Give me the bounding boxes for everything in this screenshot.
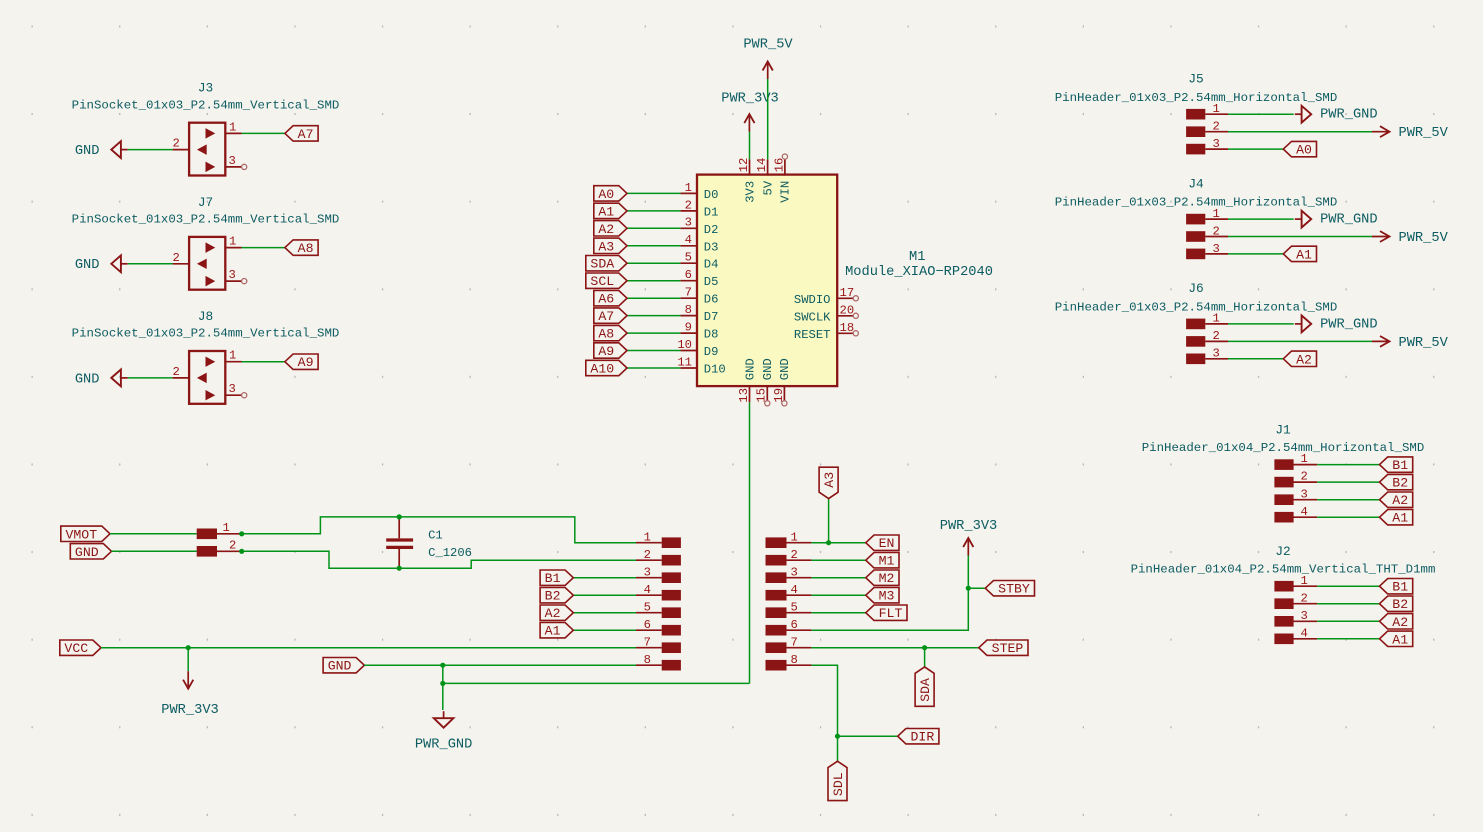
svg-text:3: 3 [1213, 242, 1220, 256]
svg-text:3: 3 [229, 268, 236, 282]
M1 pin 2 (D1) [680, 198, 718, 219]
svg-text:A1: A1 [1392, 632, 1408, 647]
wire M1.9 [627, 332, 680, 334]
junction VMOT [239, 531, 244, 536]
svg-text:D7: D7 [704, 310, 719, 324]
svg-text:PWR_3V3: PWR_3V3 [161, 703, 219, 718]
J7 pin 3 (unconnected) [225, 268, 246, 284]
svg-text:1: 1 [1213, 102, 1220, 116]
svg-text:1: 1 [685, 181, 692, 195]
junction VCC [186, 645, 191, 650]
J4 pad 3 [1186, 242, 1228, 259]
svg-text:A8: A8 [598, 327, 614, 342]
svg-text:PWR_5V: PWR_5V [1399, 231, 1449, 246]
wire VMOT [110, 533, 197, 535]
J8 pin 3 (unconnected) [225, 382, 246, 398]
svg-text:J7: J7 [198, 195, 213, 210]
power symbol PWR_3V3 mid [940, 519, 998, 555]
svg-text:2: 2 [1213, 329, 1220, 343]
svg-text:A2: A2 [598, 222, 614, 237]
wire J4.2 [1228, 236, 1372, 238]
motor-driver pad 5 [636, 600, 681, 618]
junction SDA [922, 645, 927, 650]
wire J6.3 [1228, 358, 1283, 360]
svg-text:3: 3 [685, 216, 692, 230]
label B2 left [540, 588, 573, 604]
svg-text:VMOT: VMOT [65, 527, 97, 542]
svg-text:GND: GND [761, 358, 775, 380]
wire EN [811, 542, 865, 544]
label SDL vertical [828, 761, 847, 800]
svg-text:14: 14 [755, 158, 769, 173]
svg-text:7: 7 [791, 635, 798, 649]
label A9 [285, 354, 318, 370]
wire M1.8 [627, 315, 680, 317]
label B1 at J2 [1380, 579, 1413, 595]
M1 pin 7 (D6) [680, 286, 718, 307]
svg-text:C1: C1 [428, 529, 443, 543]
svg-text:A2: A2 [1392, 615, 1408, 630]
label A1 at J2 [1380, 631, 1413, 647]
wire M1 GND down [443, 402, 750, 683]
svg-text:3: 3 [1213, 347, 1220, 361]
wire pin7 STEP [811, 647, 978, 649]
J5 pad 3 [1186, 137, 1228, 155]
svg-text:3V3: 3V3 [743, 181, 757, 203]
svg-text:1: 1 [1301, 574, 1308, 588]
wire M2 [811, 577, 865, 579]
svg-text:2: 2 [229, 539, 236, 553]
svg-text:6: 6 [644, 618, 651, 632]
svg-text:PinHeader_01x03_P2.54mm_Horizo: PinHeader_01x03_P2.54mm_Horizontal_SMD [1055, 301, 1338, 315]
connector J8 body [189, 351, 225, 404]
M1 pin 13 (GND) [737, 358, 757, 402]
J8 pin 1 [225, 349, 241, 363]
M1 pin 19 (GND) [772, 358, 792, 406]
wire J1.3 [1317, 499, 1379, 501]
wire J4.3 [1228, 253, 1283, 255]
svg-text:B2: B2 [545, 589, 561, 604]
svg-text:J1: J1 [1275, 423, 1291, 438]
wire J4.1 [1228, 218, 1294, 220]
J7 pin 2 [173, 251, 190, 265]
J6 pad 1 [1186, 312, 1228, 330]
wire A1 left [573, 629, 636, 631]
wire M1.10 [627, 350, 680, 352]
svg-text:B1: B1 [1392, 580, 1408, 595]
svg-text:2: 2 [1213, 120, 1220, 134]
label VMOT [61, 526, 110, 542]
wire STBY stub [968, 587, 985, 589]
svg-text:B2: B2 [1392, 476, 1408, 491]
capacitor C1 [386, 517, 472, 568]
J5 pad 2 [1186, 120, 1228, 138]
svg-text:M1: M1 [909, 250, 925, 265]
svg-text:1: 1 [229, 349, 236, 363]
M1 pin 11 (D10) [677, 355, 725, 376]
svg-text:PinSocket_01x03_P2.54mm_Vertic: PinSocket_01x03_P2.54mm_Vertical_SMD [72, 327, 340, 341]
svg-text:GND: GND [328, 659, 352, 674]
power symbol PWR_GND bottom [415, 711, 473, 753]
connector J3 labels [72, 81, 340, 113]
wire B2 left [573, 594, 636, 596]
svg-text:4: 4 [1301, 505, 1308, 519]
power symbol GND at J8 [75, 370, 128, 388]
motor-driver pad 7 [636, 635, 681, 653]
label A10 [586, 360, 627, 376]
svg-text:1: 1 [1213, 207, 1220, 221]
wire J8.1 [242, 361, 285, 363]
svg-text:PinSocket_01x03_P2.54mm_Vertic: PinSocket_01x03_P2.54mm_Vertical_SMD [72, 213, 340, 227]
J1 pad 3 [1274, 487, 1317, 505]
driver-ctrl pad 1 [766, 530, 812, 548]
label A7 [594, 308, 627, 324]
svg-text:D10: D10 [704, 363, 726, 377]
svg-text:GND: GND [75, 545, 99, 560]
svg-text:PWR_3V3: PWR_3V3 [721, 91, 779, 106]
J1 pad 2 [1274, 470, 1317, 488]
svg-text:13: 13 [737, 388, 751, 403]
svg-text:D9: D9 [704, 345, 719, 359]
wire GND logic [364, 664, 636, 666]
wire VCC drop [187, 648, 189, 672]
svg-text:1: 1 [1213, 312, 1220, 326]
label SDA vertical [915, 667, 934, 706]
wire DIR stub [838, 735, 898, 737]
svg-text:A2: A2 [1392, 493, 1408, 508]
svg-text:20: 20 [840, 304, 855, 318]
wire M1.3 [627, 227, 680, 229]
svg-text:A6: A6 [598, 292, 614, 307]
driver-ctrl pad 6 [766, 618, 812, 636]
svg-text:SWDIO: SWDIO [794, 293, 831, 307]
svg-text:2: 2 [173, 137, 180, 151]
wire 3V3 riser mid [967, 556, 969, 589]
svg-text:GND: GND [75, 372, 100, 387]
svg-text:2: 2 [1213, 224, 1220, 238]
svg-text:8: 8 [791, 653, 798, 667]
svg-text:1: 1 [223, 521, 230, 535]
svg-text:5V: 5V [761, 180, 775, 195]
wire FLT [811, 612, 865, 614]
svg-text:VIN: VIN [779, 181, 793, 203]
svg-text:DIR: DIR [911, 730, 935, 745]
svg-text:18: 18 [840, 321, 855, 335]
junction GND motor [239, 549, 244, 554]
label A2 [594, 221, 627, 237]
svg-text:3: 3 [1301, 609, 1308, 623]
label STBY [985, 581, 1034, 597]
svg-text:A10: A10 [590, 362, 614, 377]
power symbol PWR_5V at J5 [1372, 126, 1449, 141]
svg-text:GND: GND [743, 358, 757, 380]
M1 pin 4 (D3) [680, 233, 718, 254]
svg-text:4: 4 [791, 583, 798, 597]
svg-text:D6: D6 [704, 293, 719, 307]
svg-text:D3: D3 [704, 240, 719, 254]
svg-text:A3: A3 [598, 239, 614, 254]
M1 pin 17 (SWDIO, unconnected) [794, 286, 858, 307]
motor-driver pad 6 [636, 618, 681, 636]
label A1 at J1 [1380, 510, 1413, 526]
wire B1 left [573, 577, 636, 579]
svg-text:J2: J2 [1275, 544, 1290, 559]
svg-text:2: 2 [685, 198, 692, 212]
svg-text:J6: J6 [1188, 281, 1203, 296]
junction GND rail [440, 681, 445, 686]
svg-text:PWR_GND: PWR_GND [1320, 108, 1378, 123]
wire M1.5 [627, 262, 680, 264]
label A2 [1283, 351, 1316, 367]
power symbol PWR_GND at J5 [1295, 106, 1378, 123]
svg-text:12: 12 [737, 158, 751, 173]
svg-text:D4: D4 [704, 258, 719, 272]
svg-text:3: 3 [644, 565, 651, 579]
svg-text:PinHeader_01x04_P2.54mm_Horizo: PinHeader_01x04_P2.54mm_Horizontal_SMD [1142, 441, 1425, 455]
label A7 [285, 126, 318, 142]
driver-ctrl pad 7 [766, 635, 812, 653]
svg-text:SCL: SCL [590, 274, 614, 289]
svg-text:9: 9 [685, 321, 692, 335]
svg-text:PinHeader_01x03_P2.54mm_Horizo: PinHeader_01x03_P2.54mm_Horizontal_SMD [1055, 91, 1338, 105]
wire GND to pin2 [242, 551, 636, 568]
connector J8 labels [72, 309, 340, 341]
label M2 [866, 570, 899, 586]
label B1 left [540, 570, 573, 586]
label FLT [866, 605, 907, 621]
wire J2.1 [1317, 585, 1379, 587]
M1 pin 18 (RESET, unconnected) [794, 321, 858, 342]
wire M3 [811, 594, 865, 596]
svg-text:M1: M1 [879, 554, 895, 569]
label A2 at J2 [1380, 614, 1413, 630]
wire J7.1 [242, 247, 285, 249]
wire J6.1 [1228, 323, 1294, 325]
svg-text:3: 3 [1213, 137, 1220, 151]
junction EN/A3 [826, 540, 831, 545]
svg-text:VCC: VCC [64, 641, 88, 656]
pad GND 2 [197, 539, 242, 557]
svg-text:A1: A1 [545, 624, 561, 639]
svg-text:PinSocket_01x03_P2.54mm_Vertic: PinSocket_01x03_P2.54mm_Vertical_SMD [72, 98, 340, 112]
svg-text:A9: A9 [598, 344, 614, 359]
svg-text:D0: D0 [704, 188, 719, 202]
svg-text:PWR_GND: PWR_GND [1320, 317, 1378, 332]
wire M1.6 [627, 280, 680, 282]
svg-text:M2: M2 [879, 571, 895, 586]
label EN [866, 535, 899, 551]
svg-text:PWR_5V: PWR_5V [1399, 336, 1449, 351]
wire pin8 [811, 665, 837, 736]
svg-text:8: 8 [685, 303, 692, 317]
J6 pad 3 [1186, 347, 1228, 365]
M1 pin 10 (D9) [677, 338, 718, 359]
M1 pin 15 (GND) [755, 358, 775, 406]
M1 pin 5 (D4) [680, 251, 718, 272]
label B1 at J1 [1380, 457, 1413, 473]
label VCC [60, 640, 101, 656]
connector J5 labels [1055, 72, 1338, 105]
M1 pin 9 (D8) [680, 321, 718, 342]
junction DIR [835, 734, 840, 739]
label A3 [819, 467, 838, 498]
svg-text:D5: D5 [704, 275, 719, 289]
svg-text:A2: A2 [545, 606, 561, 621]
module M1 reference [909, 250, 925, 265]
M1 pin 8 (D7) [680, 303, 718, 324]
svg-text:2: 2 [791, 548, 798, 562]
wire J5.3 [1228, 148, 1283, 150]
svg-text:SWCLK: SWCLK [794, 310, 831, 324]
J3 pin 1 [225, 120, 241, 134]
svg-text:2: 2 [173, 365, 180, 379]
M1 pin 20 (SWCLK, unconnected) [794, 304, 858, 325]
svg-text:A0: A0 [1296, 143, 1312, 158]
label SDA [586, 256, 627, 272]
svg-text:7: 7 [685, 286, 692, 300]
svg-text:PWR_5V: PWR_5V [1399, 126, 1449, 141]
svg-text:J8: J8 [198, 309, 213, 324]
svg-text:STBY: STBY [998, 582, 1030, 597]
svg-text:C_1206: C_1206 [428, 546, 472, 560]
svg-text:A1: A1 [1392, 511, 1408, 526]
svg-text:RESET: RESET [794, 328, 831, 342]
label A1 [594, 203, 627, 219]
M1 pin 12 (3V3) [737, 158, 757, 203]
label A8 [594, 325, 627, 341]
driver-ctrl pad 4 [766, 583, 812, 601]
motor-driver pad 2 [636, 548, 681, 566]
J7 pin 1 [225, 235, 241, 249]
power symbol GND at J3 [75, 141, 128, 159]
wire J2.3 [1317, 620, 1379, 622]
wire J1.2 [1317, 481, 1379, 483]
wire M1 [811, 559, 865, 561]
J4 pad 2 [1186, 224, 1228, 242]
svg-text:7: 7 [644, 635, 651, 649]
J3 pin 2 [173, 137, 190, 151]
svg-text:M3: M3 [879, 589, 895, 604]
svg-text:2: 2 [1301, 470, 1308, 484]
svg-text:B1: B1 [1392, 458, 1408, 473]
power symbol PWR_3V3 top [721, 91, 779, 131]
svg-text:4: 4 [1301, 626, 1308, 640]
svg-text:4: 4 [685, 233, 692, 247]
wire M1.11 [627, 367, 680, 369]
J6 pad 2 [1186, 329, 1228, 347]
J8 pin 2 [173, 365, 190, 379]
label A2 left [540, 605, 573, 621]
driver-ctrl pad 2 [766, 548, 812, 566]
module M1 value [845, 265, 993, 280]
svg-text:SDL: SDL [831, 772, 846, 796]
power symbol PWR_5V top [743, 38, 793, 79]
svg-text:B2: B2 [1392, 597, 1408, 612]
motor-driver pad 3 [636, 565, 681, 583]
label SCL [586, 273, 627, 289]
svg-text:PWR_GND: PWR_GND [415, 738, 473, 753]
label A1 [1283, 246, 1316, 262]
wire GND drop [442, 665, 444, 710]
svg-text:A1: A1 [598, 204, 614, 219]
wire J2.4 [1317, 638, 1379, 640]
wire J7.2 [128, 263, 173, 265]
svg-text:1: 1 [644, 530, 651, 544]
motor-driver pad 8 [636, 653, 681, 671]
svg-text:6: 6 [685, 268, 692, 282]
wire M1.7 [627, 297, 680, 299]
svg-text:J5: J5 [1188, 72, 1203, 87]
wire VCC [101, 647, 636, 649]
wire GND motor [112, 550, 197, 552]
J3 pin 3 (unconnected) [225, 154, 246, 170]
wire J5.2 [1228, 131, 1372, 133]
M1 pin 1 (D0) [680, 181, 718, 202]
label A0 [594, 186, 627, 202]
junction GND logic [440, 663, 445, 668]
label A0 [1283, 141, 1316, 157]
power symbol PWR_5V at J6 [1372, 336, 1449, 351]
svg-text:A8: A8 [298, 241, 314, 256]
svg-text:5: 5 [685, 251, 692, 265]
power symbol GND at J7 [75, 255, 128, 273]
svg-text:FLT: FLT [879, 606, 903, 621]
label GND (motor) [70, 544, 111, 560]
J4 pad 1 [1186, 207, 1228, 225]
svg-text:2: 2 [644, 548, 651, 562]
svg-text:GND: GND [75, 258, 100, 273]
label STEP [979, 640, 1028, 656]
label M3 [866, 588, 899, 604]
wire J5.1 [1228, 113, 1294, 115]
svg-text:2: 2 [173, 251, 180, 265]
wire SDL drop [837, 736, 839, 761]
wire M1.4 [627, 245, 680, 247]
svg-text:SDA: SDA [590, 257, 614, 272]
svg-text:17: 17 [840, 286, 855, 300]
connector J1 labels [1142, 423, 1425, 456]
label A2 at J1 [1380, 492, 1413, 508]
svg-text:GND: GND [778, 358, 792, 380]
label B2 at J2 [1380, 596, 1413, 612]
svg-text:6: 6 [791, 618, 798, 632]
wire A2 left [573, 612, 636, 614]
driver-ctrl pad 5 [766, 600, 812, 618]
svg-text:5: 5 [791, 600, 798, 614]
wire SDA drop [924, 648, 926, 667]
driver-ctrl pad 8 [766, 653, 812, 671]
label A8 [285, 240, 318, 256]
svg-text:D1: D1 [704, 205, 719, 219]
module M1 body [697, 175, 837, 387]
svg-text:SDA: SDA [918, 678, 933, 702]
label B2 at J1 [1380, 474, 1413, 490]
svg-text:2: 2 [1301, 591, 1308, 605]
motor-driver pad 1 [636, 530, 681, 548]
wire J1.4 [1317, 516, 1379, 518]
connector J7 labels [72, 195, 340, 227]
M1 pin 6 (D5) [680, 268, 718, 289]
svg-text:A1: A1 [1296, 247, 1312, 262]
J1 pad 4 [1274, 505, 1317, 523]
wire J3.2 [128, 149, 173, 151]
junction C1 top [397, 514, 402, 519]
M1 pin 3 (D2) [680, 216, 718, 237]
svg-text:PWR_3V3: PWR_3V3 [940, 519, 998, 534]
svg-text:A2: A2 [1296, 352, 1312, 367]
svg-text:J4: J4 [1188, 176, 1204, 191]
svg-text:PinHeader_01x04_P2.54mm_Vertic: PinHeader_01x04_P2.54mm_Vertical_THT_D1m… [1131, 563, 1436, 577]
